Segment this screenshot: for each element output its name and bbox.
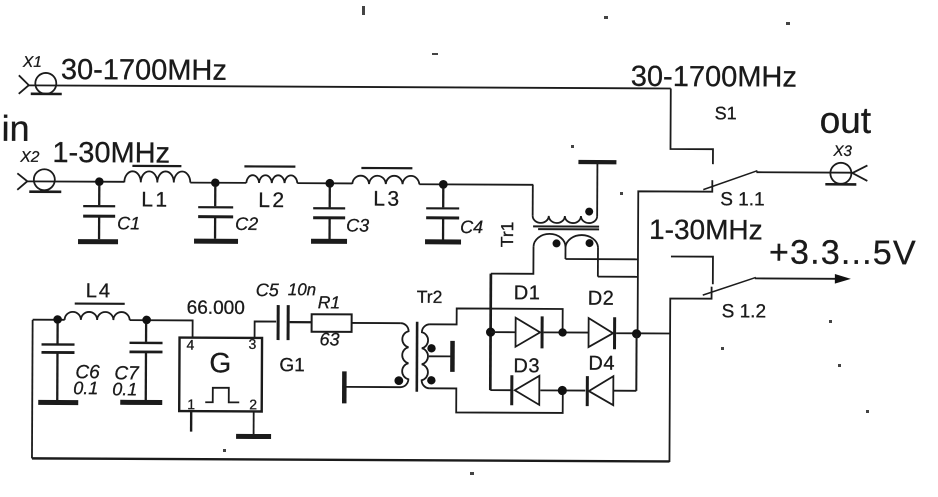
svg-text:D3: D3 bbox=[513, 355, 540, 377]
capacitor C3 bbox=[311, 187, 347, 241]
capacitor C7 bbox=[120, 323, 162, 402]
switch S1.1 bbox=[703, 170, 757, 189]
node bridge left bbox=[486, 327, 495, 336]
wire Tr1 secondary to bridge bbox=[598, 276, 638, 278]
svg-text:63: 63 bbox=[320, 329, 340, 349]
diode D3 bbox=[512, 375, 540, 405]
wire L2 to L3 bbox=[297, 182, 352, 184]
svg-text:G: G bbox=[209, 347, 231, 378]
svg-text:1-30MHz: 1-30MHz bbox=[52, 137, 170, 170]
svg-text:L3: L3 bbox=[373, 188, 401, 211]
node C2 bbox=[211, 178, 220, 187]
wire output riser down bbox=[635, 334, 637, 391]
svg-text:1-30MHz: 1-30MHz bbox=[649, 214, 763, 246]
svg-text:0.1: 0.1 bbox=[112, 379, 137, 399]
wire S1.2 fixed contact bbox=[671, 256, 713, 284]
svg-text:D1: D1 bbox=[514, 282, 541, 304]
svg-text:1: 1 bbox=[187, 396, 195, 412]
node C3 bbox=[325, 179, 334, 188]
svg-text:Tr1: Tr1 bbox=[497, 222, 517, 248]
wire L4 node row bbox=[33, 319, 65, 321]
svg-text:C4: C4 bbox=[460, 217, 483, 237]
dot Tr1 secondary b bbox=[586, 239, 594, 247]
inductor L2 bbox=[244, 166, 297, 183]
diode D4 bbox=[587, 376, 613, 406]
wire L3 to Tr1 bbox=[419, 183, 533, 186]
wire S1.1 to X3 bbox=[756, 171, 852, 173]
wire X2 to L1 bbox=[27, 180, 124, 182]
svg-text:in: in bbox=[1, 108, 29, 149]
svg-text:3: 3 bbox=[248, 336, 256, 352]
wire Tr2 bottom to bridge mid bbox=[429, 388, 562, 413]
inductor L3 bbox=[352, 168, 419, 184]
wire bottom bus bbox=[32, 458, 669, 461]
dot Tr2 secondary b bbox=[427, 376, 435, 384]
svg-text:C1: C1 bbox=[117, 213, 140, 233]
node bridge bottom mid bbox=[558, 386, 567, 395]
svg-text:30-1700MHz: 30-1700MHz bbox=[61, 54, 227, 87]
svg-text:X3: X3 bbox=[832, 143, 852, 160]
svg-text:Tr2: Tr2 bbox=[417, 287, 443, 307]
node C1 bbox=[95, 177, 104, 186]
svg-text:66.000: 66.000 bbox=[187, 298, 245, 319]
wire S1.2 common riser bbox=[669, 286, 711, 462]
node bridge top mid bbox=[558, 328, 566, 336]
wire D2 to output node bbox=[616, 332, 669, 334]
svg-text:L2: L2 bbox=[258, 189, 286, 212]
svg-text:S 1.2: S 1.2 bbox=[722, 301, 766, 322]
dot Tr2 secondary a bbox=[427, 344, 435, 352]
wire L1 to L2 bbox=[190, 182, 246, 184]
capacitor C5 bbox=[278, 305, 288, 340]
wire G pin2 to ground bbox=[253, 411, 255, 434]
svg-text:R1: R1 bbox=[318, 292, 340, 312]
wire D4 to output riser bbox=[614, 390, 636, 392]
wire Tr1 return to bridge bbox=[489, 274, 492, 390]
wire G pin3 to C5 bbox=[255, 321, 277, 338]
connector X3 bbox=[825, 163, 867, 185]
node C6 bbox=[53, 315, 62, 324]
svg-text:2: 2 bbox=[249, 396, 257, 412]
wire L4 to G pin4 bbox=[130, 320, 193, 338]
svg-text:0.1: 0.1 bbox=[73, 378, 98, 398]
dot Tr1 primary bbox=[585, 208, 593, 216]
svg-text:G1: G1 bbox=[279, 355, 304, 376]
svg-text:L1: L1 bbox=[141, 188, 169, 211]
svg-text:X2: X2 bbox=[19, 149, 39, 166]
resistor R1 bbox=[312, 314, 352, 332]
diode D2 bbox=[589, 317, 615, 349]
ground G pin2 bbox=[236, 434, 271, 439]
wire riser to S1.1 bbox=[638, 180, 713, 334]
inductor L4 bbox=[65, 304, 130, 321]
svg-text:C3: C3 bbox=[346, 215, 369, 235]
connector X1 bbox=[19, 73, 62, 94]
wire X1 to S1 bbox=[28, 85, 671, 88]
svg-text:X1: X1 bbox=[22, 54, 42, 71]
diode D1 bbox=[516, 316, 543, 348]
wire to D1 bbox=[491, 331, 516, 333]
wire +V arrow bbox=[755, 274, 851, 284]
svg-text:C5: C5 bbox=[256, 280, 280, 300]
transformer Tr2 bbox=[344, 321, 452, 404]
capacitor C4 bbox=[425, 188, 461, 242]
node bridge output bbox=[632, 329, 641, 338]
dot Tr1 secondary a bbox=[553, 239, 561, 247]
wire R1 to Tr2 bbox=[352, 322, 401, 324]
svg-text:S1: S1 bbox=[715, 103, 737, 123]
svg-text:4: 4 bbox=[186, 337, 194, 353]
transformer Tr1 bbox=[491, 162, 617, 277]
svg-text:+3.3...5V: +3.3...5V bbox=[769, 233, 917, 272]
wire left riser bbox=[31, 320, 34, 458]
svg-text:10n: 10n bbox=[288, 280, 316, 299]
wire C5 to R1 bbox=[290, 321, 312, 323]
switch S1.2 bbox=[703, 277, 756, 295]
wire G pin1 stub bbox=[190, 411, 193, 431]
svg-text:S 1.1: S 1.1 bbox=[720, 189, 764, 210]
connector X2 bbox=[17, 169, 61, 192]
wire D1 to D2 bbox=[544, 331, 589, 333]
svg-text:D4: D4 bbox=[588, 353, 615, 375]
node C7 bbox=[142, 316, 151, 325]
wire Tr2 top to bridge mid bbox=[430, 308, 563, 332]
dot Tr2 primary bbox=[394, 376, 403, 385]
oscillator U1 box bbox=[179, 338, 262, 412]
svg-text:L4: L4 bbox=[86, 280, 112, 302]
svg-text:C2: C2 bbox=[235, 214, 258, 234]
inductor L1 bbox=[124, 166, 190, 183]
wire Tr1 tap to S1.1 bbox=[565, 258, 637, 260]
wire to D3 bbox=[490, 389, 511, 391]
svg-text:out: out bbox=[820, 100, 872, 141]
capacitor C6 bbox=[38, 323, 78, 403]
square wave symbol bbox=[205, 388, 239, 403]
wire 30-1700 step to S1.1 bbox=[670, 88, 713, 164]
svg-text:30-1700MHz: 30-1700MHz bbox=[631, 61, 797, 94]
capacitor C1 bbox=[78, 185, 118, 242]
scan specks bbox=[223, 6, 869, 475]
wire D3 to D4 bbox=[540, 389, 585, 391]
capacitor C2 bbox=[194, 187, 238, 242]
svg-text:D2: D2 bbox=[588, 288, 615, 310]
node C4 bbox=[439, 180, 448, 189]
